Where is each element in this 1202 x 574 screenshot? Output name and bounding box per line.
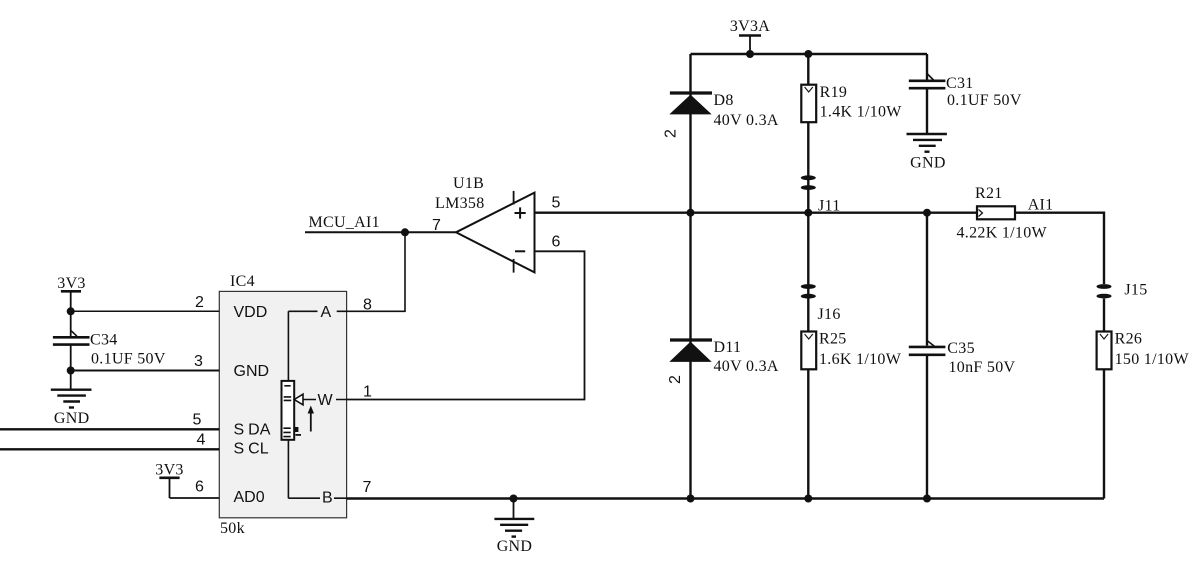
node VDD junction [67,307,75,315]
svg-text:U1B: U1B [453,175,484,192]
diode D8 [663,92,779,138]
capacitor C35 [909,340,1016,376]
svg-text:1: 1 [363,384,372,401]
svg-text:GND: GND [910,155,946,172]
node 3V3A junction [746,50,754,58]
wire C31 to ground [926,88,928,134]
wire SDA [0,428,219,430]
wire C35 to bottom rail [926,355,928,499]
svg-text:40V 0.3A: 40V 0.3A [714,358,779,375]
ground GND under C34 [51,371,92,427]
svg-text:1.6K 1/10W: 1.6K 1/10W [819,351,902,368]
svg-text:VDD: VDD [234,304,268,321]
node GND junction [67,367,75,375]
node bottom C35 junction [923,495,931,503]
svg-text:3V3A: 3V3A [730,18,770,35]
capacitor C34 [53,331,166,368]
jumper J15 [1097,282,1148,299]
svg-text:2: 2 [663,129,680,138]
IC4 digital potentiometer body [219,273,346,537]
svg-text:C35: C35 [947,340,975,357]
svg-text:10nF 50V: 10nF 50V [949,359,1016,376]
IC4 internal wiring [288,311,346,498]
svg-text:4: 4 [197,432,206,449]
resistor R21 [957,185,1048,242]
svg-text:3V3: 3V3 [155,462,183,479]
svg-text:C31: C31 [946,75,974,92]
IC4 wiper arrow [294,394,303,435]
node bottom GND junction [510,495,518,503]
svg-text:W: W [318,392,334,409]
wire op-amp pin 5 line [535,211,977,213]
svg-text:GND: GND [234,363,270,380]
svg-text:D8: D8 [714,92,734,109]
svg-text:R19: R19 [820,84,848,101]
svg-text:6: 6 [195,479,204,496]
svg-text:A: A [321,304,332,321]
svg-text:6: 6 [552,234,561,251]
svg-text:7: 7 [363,479,372,496]
wire bottom rail (B pin 7 net) [347,497,1104,499]
wire top rail 3V3A [691,53,928,55]
svg-text:5: 5 [193,412,202,429]
wire R21 to J15 column [1016,213,1104,284]
svg-text:SCL: SCL [234,441,269,458]
wire VDD node down to C34 [70,311,72,337]
IC4 potentiometer resistor element [282,381,295,440]
IC4 pin numbers [193,294,373,496]
svg-text:5: 5 [552,195,561,212]
wire C34 to GND node [70,345,72,371]
svg-text:R21: R21 [975,185,1003,202]
svg-text:C34: C34 [90,332,118,349]
svg-text:3V3: 3V3 [57,275,85,292]
svg-text:3: 3 [194,353,203,370]
wire D8/D11 column [689,54,691,499]
wire J15 to R26 [1103,299,1105,332]
wire GND node to pin 3 [71,370,220,372]
svg-text:1.4K 1/10W: 1.4K 1/10W [820,104,903,121]
svg-text:J16: J16 [818,306,841,323]
svg-text:GND: GND [497,538,533,555]
svg-text:MCU_AI1: MCU_AI1 [309,214,380,231]
wire SCL [0,448,219,450]
wire pin 8 (A) [347,232,405,311]
svg-text:50k: 50k [220,520,245,537]
svg-text:B: B [322,490,333,507]
svg-text:R25: R25 [819,330,847,347]
diode D11 [667,339,779,384]
wire pin5 line down through J16 [807,213,809,332]
svg-text:J11: J11 [818,198,841,215]
svg-text:GND: GND [54,410,90,427]
ground GND under C31 [907,134,947,172]
jumper J16 [801,284,841,323]
jumper J11 [801,175,841,214]
node pin5/R19 junction [804,209,812,217]
IC4 up arrow [308,406,314,432]
power 3V3A [730,18,770,54]
wire R25 to bottom rail [807,369,809,498]
svg-text:LM358: LM358 [435,195,485,212]
wire R19 to J11 [807,122,809,213]
svg-text:0.1UF 50V: 0.1UF 50V [947,92,1022,109]
resistor R25 [801,330,901,369]
node pin5/C35 junction [923,209,931,217]
node bottom D11 junction [687,495,695,503]
wire 3V3 to VDD pin 2 [71,310,220,312]
svg-text:2: 2 [195,294,204,311]
node bottom R25 junction [804,495,812,503]
power 3V3 top-left [57,275,85,311]
svg-text:J15: J15 [1124,282,1147,299]
svg-text:D11: D11 [714,339,742,356]
svg-text:IC4: IC4 [230,273,255,290]
svg-text:0.1UF 50V: 0.1UF 50V [91,350,166,367]
wire MCU_AI1 to op-amp output [305,231,456,233]
power 3V3 at AD0 [155,462,183,499]
svg-text:R26: R26 [1115,330,1143,347]
wire R26 to bottom rail [1103,369,1105,498]
svg-text:4.22K 1/10W: 4.22K 1/10W [957,225,1048,242]
wire 3V3 to AD0 pin 6 [170,497,220,499]
svg-text:2: 2 [667,375,684,384]
capacitor C31 [909,54,1022,109]
svg-text:40V 0.3A: 40V 0.3A [714,112,779,129]
wire pin 1 (W) to op-amp pin 6 [347,251,585,399]
svg-text:150 1/10W: 150 1/10W [1115,351,1190,368]
ground GND bottom center [494,499,534,556]
node R19 top junction [804,50,812,58]
svg-text:AI1: AI1 [1028,196,1054,213]
svg-text:SDA: SDA [234,422,271,439]
op-amp U1B [432,175,561,273]
node pin5/D8 junction [687,209,695,217]
resistor R19 [801,54,902,122]
resistor R26 [1097,330,1190,369]
svg-text:AD0: AD0 [234,489,265,506]
wire C35 column [926,213,928,346]
node op-amp output junction [401,228,409,236]
